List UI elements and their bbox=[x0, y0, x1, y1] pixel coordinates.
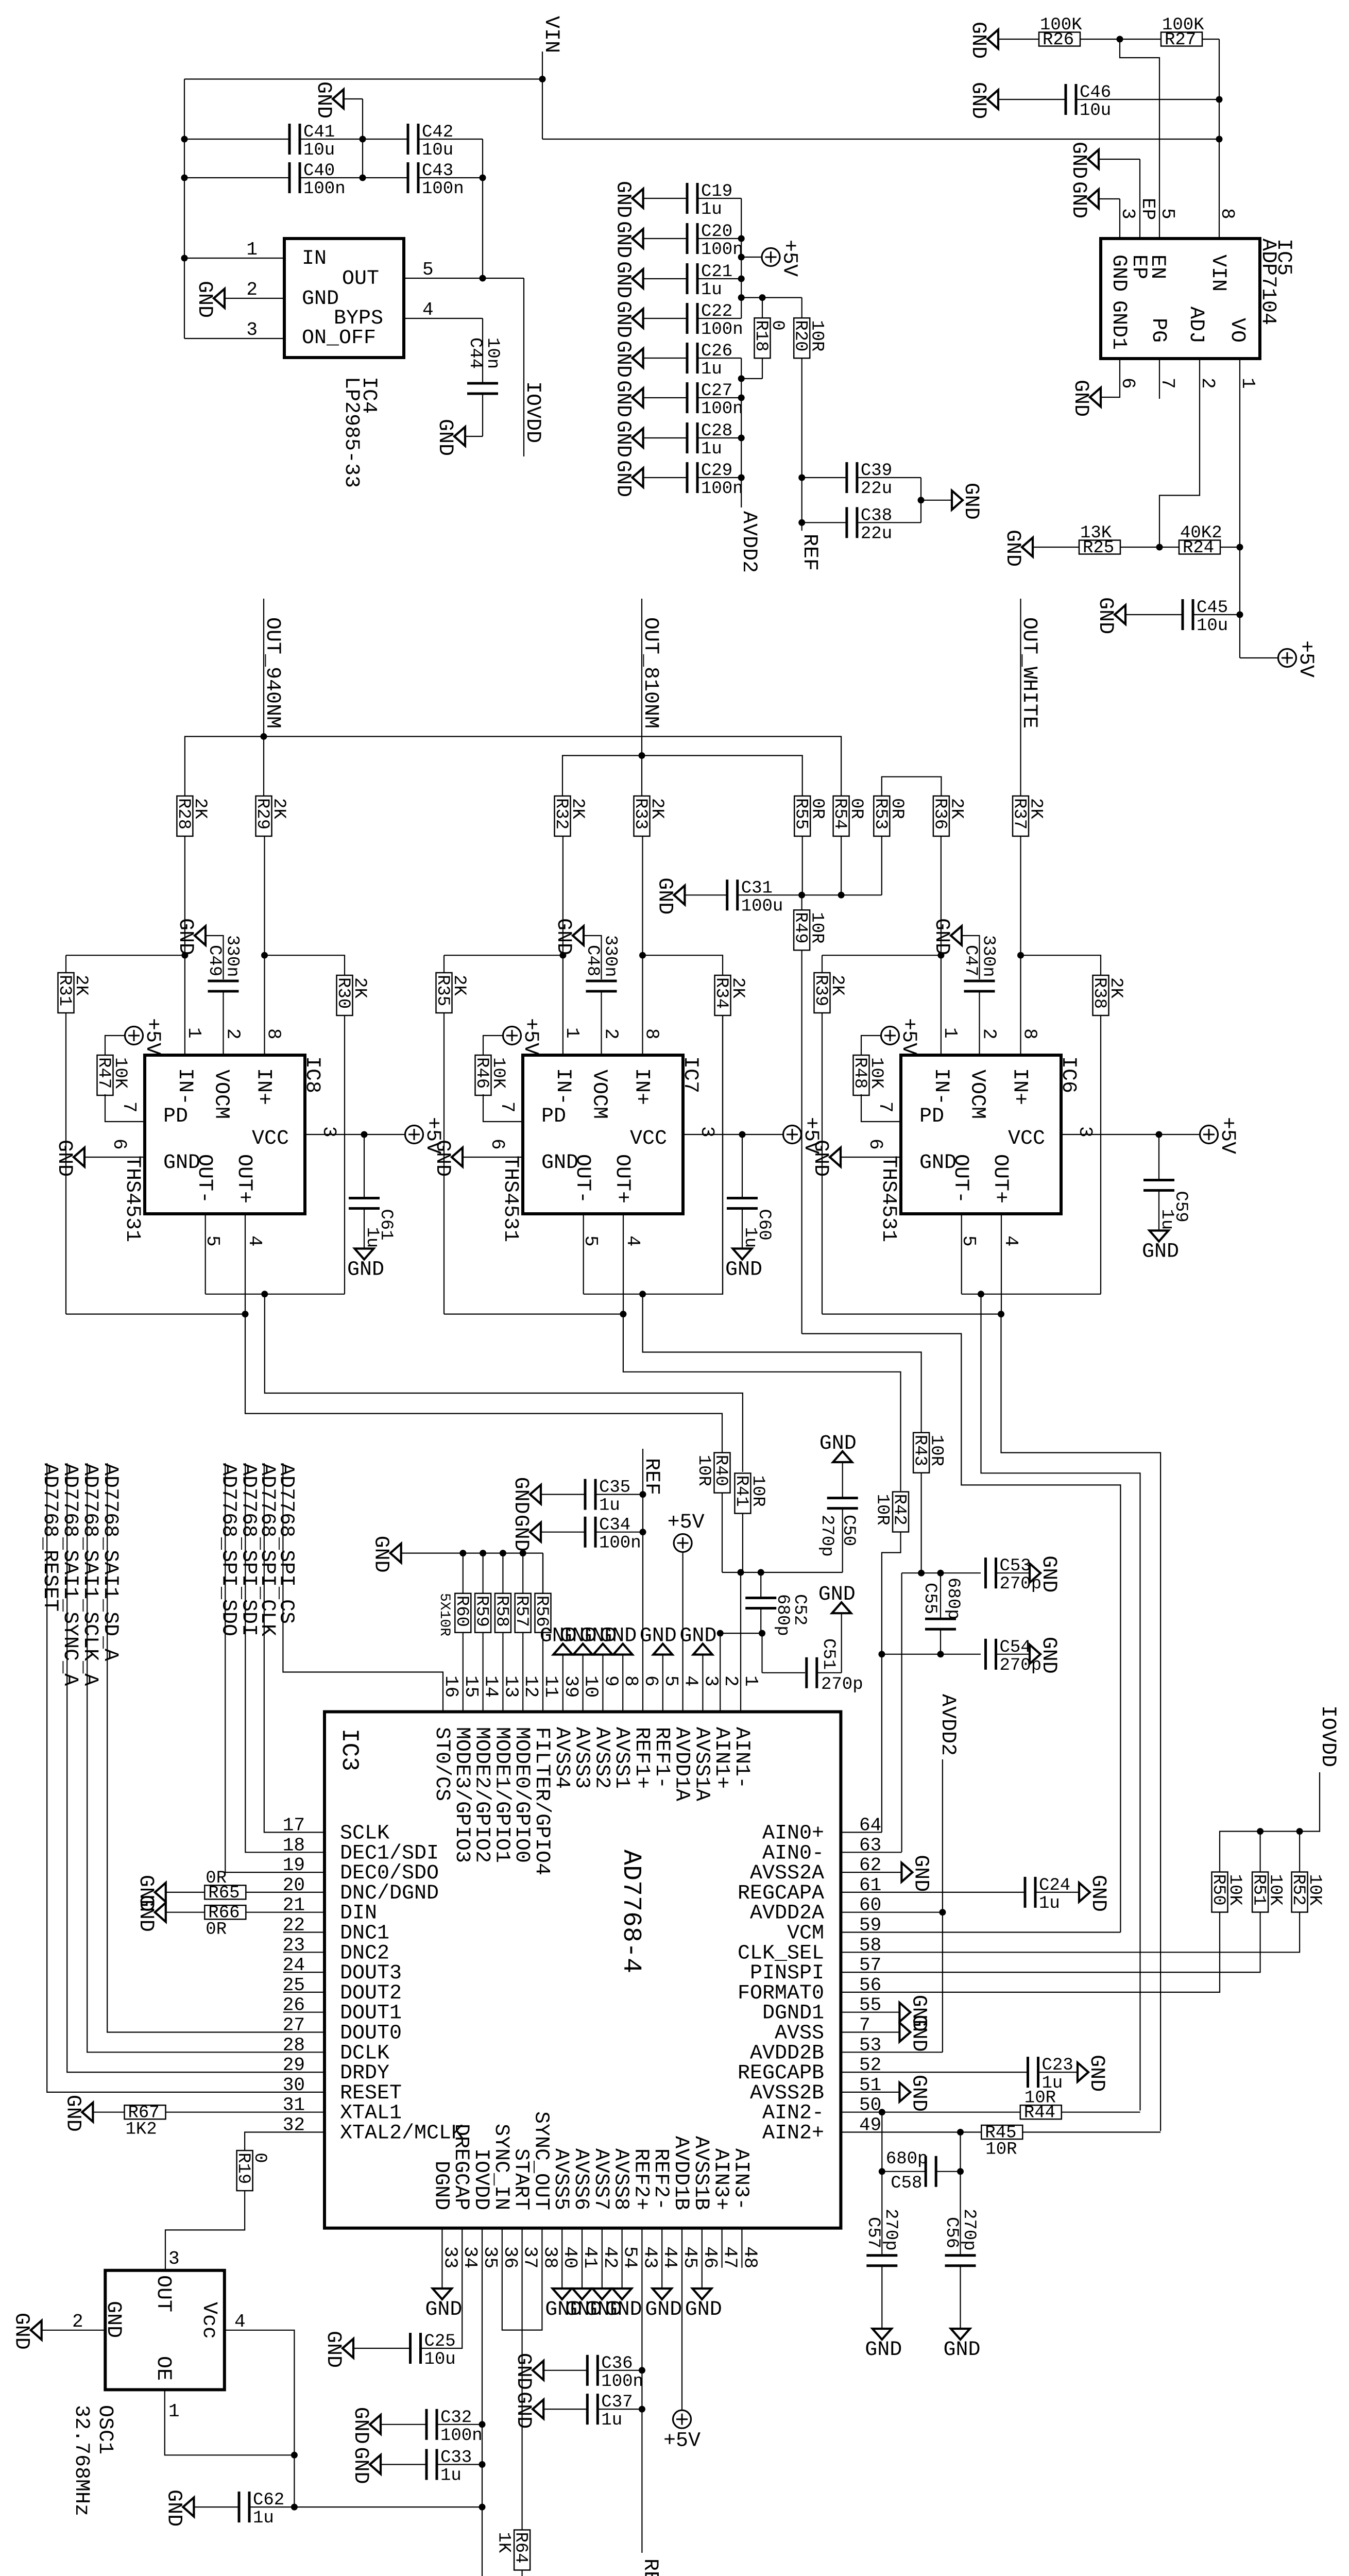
svg-text:+5V: +5V bbox=[519, 1018, 542, 1055]
wire bbox=[699, 198, 742, 199]
wire R54 bottom bbox=[841, 836, 842, 895]
capacitor C60 bbox=[727, 1197, 758, 1210]
wire VIN vertical bbox=[542, 52, 543, 139]
svg-text:GND: GND bbox=[511, 2353, 535, 2390]
svg-text:R60: R60 bbox=[452, 1596, 471, 1627]
wire VIN to IC4 input bbox=[184, 78, 542, 79]
resistor R27 bbox=[1161, 15, 1204, 50]
wire bbox=[1033, 547, 1079, 548]
junction bbox=[738, 1569, 744, 1576]
wire bbox=[921, 500, 952, 501]
svg-text:10u: 10u bbox=[424, 2350, 456, 2369]
junction bbox=[639, 752, 645, 759]
wire pin45 AVDD1B bbox=[681, 2228, 682, 2410]
svg-text:C49: C49 bbox=[204, 945, 224, 976]
wire to VIN pin8 bbox=[1219, 39, 1220, 239]
junction bbox=[738, 276, 745, 282]
svg-text:GND: GND bbox=[1069, 380, 1092, 417]
junction bbox=[479, 2504, 486, 2511]
wire VOCM bbox=[979, 991, 980, 1055]
wire bbox=[543, 2409, 587, 2410]
junction at IC5 VIN line bbox=[1216, 136, 1223, 143]
ground at pin 5 bbox=[640, 1625, 677, 1655]
svg-text:GND: GND bbox=[509, 1515, 532, 1552]
svg-text:2K: 2K bbox=[71, 975, 91, 996]
capacitor C44 bbox=[467, 382, 498, 395]
svg-text:2: 2 bbox=[979, 1028, 1000, 1040]
wire pin6 bbox=[463, 1157, 523, 1158]
svg-text:4: 4 bbox=[234, 2311, 246, 2332]
junction bbox=[879, 2109, 885, 2115]
wire to EN pin5 bbox=[1120, 39, 1159, 239]
svg-text:GND: GND bbox=[511, 2392, 535, 2429]
wire bbox=[1062, 2112, 1140, 2113]
wire pin52 bbox=[841, 2072, 1028, 2073]
capacitor C33 bbox=[425, 2448, 472, 2486]
ground at C48 bbox=[552, 918, 584, 955]
wire bbox=[842, 1510, 843, 1572]
svg-text:8: 8 bbox=[641, 1028, 662, 1040]
ground at C31 bbox=[653, 877, 685, 914]
wire R31 bottom bbox=[65, 1013, 66, 1314]
resistor R58 bbox=[491, 1594, 511, 1633]
wire bbox=[166, 1912, 206, 1913]
wire pin62 bbox=[841, 1872, 901, 1873]
ground at C38/C39 bbox=[952, 483, 982, 520]
resistor R49 bbox=[791, 910, 827, 950]
ground at R25 bbox=[1001, 530, 1033, 567]
svg-text:10K: 10K bbox=[1305, 1874, 1324, 1906]
junction bbox=[918, 1570, 925, 1577]
wire pin4 BYPS bbox=[404, 318, 483, 319]
svg-text:GND: GND bbox=[425, 2298, 462, 2321]
svg-text:GND: GND bbox=[1067, 181, 1090, 218]
wire stub bbox=[283, 1992, 325, 1993]
capacitor C25 bbox=[409, 2332, 456, 2369]
wire bbox=[1021, 955, 1101, 975]
svg-text:680p: 680p bbox=[943, 1578, 963, 1620]
capacitor C41 bbox=[288, 123, 335, 160]
ground at pin 39 bbox=[540, 1625, 577, 1655]
wire bbox=[858, 477, 921, 478]
wire bbox=[643, 278, 687, 279]
svg-text:GND: GND bbox=[605, 2298, 642, 2321]
wire bbox=[962, 936, 980, 979]
svg-text:2: 2 bbox=[72, 2311, 83, 2332]
svg-text:AVSS1B: AVSS1B bbox=[689, 2136, 712, 2210]
svg-text:10R: 10R bbox=[927, 1435, 946, 1466]
resistor R34 bbox=[711, 975, 747, 1015]
ground at AVSS2B bbox=[899, 2075, 930, 2112]
svg-text:GND: GND bbox=[321, 2331, 345, 2368]
resistor R53 bbox=[870, 796, 907, 836]
wire pin4 OUT+ bbox=[623, 1214, 624, 1314]
wire pin7 PD bbox=[861, 1094, 901, 1122]
svg-text:GND: GND bbox=[349, 2407, 372, 2444]
svg-text:10: 10 bbox=[580, 1675, 602, 1698]
junction bbox=[738, 294, 745, 301]
wire pin3 VCC bbox=[305, 1134, 405, 1135]
capacitor C39 bbox=[845, 461, 892, 499]
svg-text:GND: GND bbox=[611, 221, 635, 258]
svg-text:C25: C25 bbox=[424, 2332, 456, 2351]
wire VCM route bbox=[802, 1334, 1121, 1933]
op-amp U IC4 LP2985-33 box bbox=[284, 239, 404, 358]
wire R38 bottom bbox=[1100, 1015, 1101, 1294]
ground at AVSS bbox=[899, 2015, 930, 2052]
svg-text:GND: GND bbox=[611, 380, 635, 417]
power +5V at IC5 output bbox=[1278, 640, 1318, 677]
svg-text:48: 48 bbox=[739, 2246, 760, 2268]
capacitor C42 bbox=[407, 123, 454, 160]
wire AIN2- vertical bbox=[881, 2112, 882, 2255]
power +5V at AVDD1B bbox=[663, 2410, 701, 2453]
wire pin7 bbox=[841, 2031, 899, 2032]
wire bbox=[861, 1036, 881, 1056]
wire bbox=[1240, 657, 1278, 658]
wire bbox=[543, 2370, 587, 2371]
wire pin3 bbox=[184, 338, 284, 339]
resistor R48 bbox=[850, 1055, 886, 1095]
svg-text:GND: GND bbox=[944, 2338, 981, 2362]
svg-text:0R: 0R bbox=[887, 798, 907, 819]
svg-text:10R: 10R bbox=[985, 2140, 1017, 2160]
wire bbox=[184, 139, 289, 140]
svg-text:GND: GND bbox=[1001, 530, 1024, 567]
wire FORMAT0 to R50 bbox=[841, 1912, 1220, 1992]
ground at IC7 pin6 bbox=[431, 1140, 463, 1177]
svg-text:GND: GND bbox=[611, 460, 635, 497]
wire bbox=[742, 1134, 743, 1197]
svg-text:IOVDD: IOVDD bbox=[469, 2148, 492, 2210]
capacitor C40 bbox=[288, 161, 346, 199]
svg-text:+5V: +5V bbox=[778, 240, 801, 277]
resistor R46 bbox=[472, 1055, 508, 1095]
svg-text:1u: 1u bbox=[701, 280, 722, 300]
junction bbox=[998, 1311, 1004, 1317]
wire bbox=[364, 1134, 365, 1197]
wire bbox=[699, 437, 742, 438]
svg-text:8: 8 bbox=[1019, 1028, 1040, 1040]
ground at R67 bbox=[61, 2095, 93, 2132]
svg-text:SYNC_IN: SYNC_IN bbox=[489, 2124, 513, 2210]
svg-text:8: 8 bbox=[620, 1675, 641, 1687]
wire bbox=[643, 198, 687, 199]
svg-text:5: 5 bbox=[1157, 208, 1178, 219]
junction bbox=[261, 1291, 268, 1297]
power +5V at R48 bbox=[881, 1018, 920, 1055]
junction bbox=[479, 2461, 486, 2468]
svg-text:ON_OFF: ON_OFF bbox=[302, 327, 376, 350]
svg-text:4: 4 bbox=[680, 1675, 702, 1687]
svg-text:GND: GND bbox=[433, 419, 456, 456]
svg-text:PD: PD bbox=[541, 1105, 566, 1128]
svg-text:100n: 100n bbox=[440, 2426, 483, 2446]
wire pin2 bbox=[225, 298, 284, 299]
svg-text:GND: GND bbox=[1037, 1555, 1060, 1592]
svg-text:OUT-: OUT- bbox=[949, 1154, 972, 1204]
wire bbox=[1158, 1191, 1159, 1231]
wire pin34 bbox=[421, 2228, 463, 2348]
wire IC6 pin1 line bbox=[941, 836, 942, 1055]
wire bbox=[502, 1553, 503, 1594]
wire R55 bottom bbox=[802, 836, 803, 895]
svg-text:1u: 1u bbox=[599, 1496, 620, 1516]
svg-text:3: 3 bbox=[1074, 1126, 1096, 1138]
svg-text:42: 42 bbox=[600, 2246, 621, 2268]
svg-text:GND: GND bbox=[611, 301, 635, 338]
svg-text:GND: GND bbox=[61, 2095, 84, 2132]
ground at pin 8 bbox=[600, 1625, 637, 1655]
regulator IC5 ADP7104 box bbox=[1101, 239, 1260, 359]
svg-text:11: 11 bbox=[540, 1675, 561, 1698]
wire bbox=[1037, 1892, 1080, 1893]
wire AIN0- node bbox=[902, 1572, 981, 1573]
svg-text:15: 15 bbox=[460, 1675, 482, 1698]
wire bbox=[66, 955, 185, 956]
junction bbox=[360, 136, 366, 143]
wire bbox=[643, 955, 723, 975]
ground at pin 10 bbox=[560, 1625, 597, 1655]
wire stub bbox=[582, 1655, 583, 1712]
ground at EP bbox=[1067, 142, 1099, 179]
svg-text:1u: 1u bbox=[1039, 1894, 1060, 1913]
ground at IC6 pin6 bbox=[809, 1140, 841, 1177]
svg-text:OUT: OUT bbox=[151, 2275, 175, 2312]
svg-text:GND: GND bbox=[1067, 142, 1090, 179]
svg-text:C55: C55 bbox=[920, 1583, 940, 1614]
svg-text:2: 2 bbox=[720, 1675, 741, 1687]
svg-text:GND: GND bbox=[611, 261, 635, 298]
ground at C46 bbox=[966, 82, 998, 119]
ground at C26 bbox=[611, 341, 643, 378]
ground at C47 bbox=[930, 918, 962, 955]
svg-text:0: 0 bbox=[250, 2153, 269, 2163]
wire bbox=[998, 39, 1120, 40]
svg-text:GND: GND bbox=[966, 82, 989, 119]
svg-text:AIN2+: AIN2+ bbox=[762, 2122, 824, 2145]
wire pin4 AVDD1A bbox=[682, 1552, 683, 1712]
capacitor C61 bbox=[349, 1197, 380, 1210]
svg-text:5X10R: 5X10R bbox=[436, 1593, 452, 1636]
ground below C56 bbox=[944, 2329, 981, 2362]
wire bbox=[1202, 39, 1219, 40]
svg-text:GND: GND bbox=[162, 2489, 185, 2527]
ground at DGND1 bbox=[899, 1995, 930, 2032]
wire bbox=[762, 1672, 806, 1673]
svg-text:16: 16 bbox=[440, 1675, 462, 1698]
svg-text:+5V: +5V bbox=[1294, 640, 1317, 677]
svg-text:DGND: DGND bbox=[429, 2161, 452, 2210]
capacitor C22 bbox=[686, 302, 743, 340]
wire bbox=[1022, 2131, 1160, 2132]
junction bbox=[978, 1291, 984, 1297]
wire bbox=[802, 522, 847, 523]
resistor R31 bbox=[55, 973, 91, 1013]
capacitor C49 bbox=[208, 980, 239, 993]
wire VIN to IC5 pin8 bbox=[542, 139, 1219, 140]
wire pin46 bbox=[702, 2228, 703, 2288]
junction bbox=[480, 275, 486, 282]
wire R40 bottom bbox=[722, 1493, 723, 1572]
svg-text:1: 1 bbox=[561, 1027, 583, 1039]
wire IC6 pin8 line bbox=[1020, 836, 1021, 1055]
svg-text:GND: GND bbox=[53, 1140, 76, 1177]
capacitor C52 bbox=[745, 1597, 776, 1609]
capacitor C38 bbox=[845, 506, 892, 544]
ground at C29 bbox=[611, 460, 643, 497]
svg-text:43: 43 bbox=[639, 2246, 660, 2268]
svg-text:GND: GND bbox=[679, 1625, 716, 1648]
ground above C41 bbox=[312, 81, 344, 118]
svg-text:40: 40 bbox=[559, 2246, 580, 2268]
resistor R37 bbox=[1010, 796, 1046, 836]
svg-text:330n: 330n bbox=[223, 935, 242, 977]
junction bbox=[480, 175, 486, 181]
capacitor C53 bbox=[984, 1556, 1041, 1594]
wire bbox=[822, 955, 941, 956]
wire bbox=[184, 177, 289, 178]
ground at C35 bbox=[509, 1477, 541, 1514]
svg-text:GND: GND bbox=[640, 1625, 677, 1648]
svg-text:270p: 270p bbox=[821, 1675, 863, 1694]
ground at DGND bbox=[425, 2289, 462, 2321]
svg-text:GND: GND bbox=[369, 1536, 392, 1573]
wire bbox=[541, 1494, 585, 1495]
wire bbox=[263, 737, 264, 796]
svg-text:10R: 10R bbox=[807, 912, 827, 943]
svg-text:IN+: IN+ bbox=[1008, 1068, 1031, 1105]
svg-text:OE: OE bbox=[151, 2356, 175, 2381]
capacitor C57 bbox=[866, 2254, 897, 2267]
wire OUT_940NM row bbox=[185, 737, 841, 796]
svg-text:5: 5 bbox=[660, 1675, 681, 1687]
wire bbox=[265, 955, 345, 975]
wire IC7 OUT- to R43 bbox=[643, 1294, 921, 1433]
wire bbox=[194, 2506, 239, 2507]
svg-text:OUT-: OUT- bbox=[193, 1154, 216, 1204]
wire IC8 OUT- row bbox=[206, 1294, 345, 1295]
svg-text:46: 46 bbox=[699, 2246, 721, 2268]
wire bbox=[741, 257, 762, 258]
svg-text:1: 1 bbox=[1237, 378, 1258, 389]
wire bbox=[841, 1614, 842, 1673]
resistor R35 bbox=[433, 973, 469, 1013]
wire bbox=[699, 397, 742, 398]
wire bbox=[420, 139, 483, 140]
wire R42 jog to AIN0+ bbox=[882, 1532, 901, 1833]
resistor R65 bbox=[204, 1869, 246, 1903]
svg-text:3: 3 bbox=[1117, 208, 1138, 219]
wire bbox=[842, 1462, 843, 1498]
wire pin53 bbox=[841, 2052, 943, 2053]
wire AD7768_SAI1_SYNC_A bbox=[67, 1463, 325, 2072]
svg-text:1u: 1u bbox=[253, 2509, 274, 2528]
junction bbox=[758, 1569, 764, 1576]
wire R41 bottom bbox=[742, 1514, 743, 1573]
wire bbox=[105, 1036, 125, 1056]
svg-text:1u: 1u bbox=[601, 2411, 622, 2430]
svg-text:2K: 2K bbox=[269, 798, 288, 819]
ground at pin 41 bbox=[565, 2289, 602, 2321]
junction bbox=[738, 254, 745, 261]
svg-text:GND: GND bbox=[431, 1140, 454, 1177]
wire R53 to R36 bbox=[882, 777, 942, 796]
wire pin40 bbox=[561, 2228, 562, 2288]
wire bbox=[699, 238, 742, 239]
resistor R43 bbox=[910, 1433, 946, 1473]
power +5V at R47 bbox=[125, 1018, 164, 1055]
wire bbox=[960, 2266, 961, 2329]
ground below C61 bbox=[347, 1249, 384, 1282]
wire OUT_940NM bbox=[263, 599, 264, 737]
svg-text:IC7: IC7 bbox=[678, 1056, 702, 1093]
resistor R57 bbox=[511, 1594, 531, 1633]
ground at C34 bbox=[509, 1515, 541, 1552]
wire bbox=[246, 1912, 325, 1913]
wire REF drop bbox=[801, 358, 802, 531]
wire IC6 OUT- to R44 bbox=[981, 1294, 1140, 2111]
svg-text:1: 1 bbox=[246, 239, 258, 260]
svg-text:680p: 680p bbox=[886, 2149, 928, 2169]
junction bbox=[1156, 1131, 1163, 1138]
wire AD7768_SPI_SDI bbox=[245, 1463, 325, 1852]
capacitor C21 bbox=[686, 262, 733, 300]
wire pin35 IOVDD bbox=[482, 2228, 483, 2576]
svg-text:1u: 1u bbox=[1157, 1209, 1176, 1230]
svg-text:3: 3 bbox=[700, 1675, 721, 1687]
svg-text:GND: GND bbox=[1086, 1875, 1109, 1912]
wire GND riser bbox=[362, 99, 363, 178]
svg-text:4: 4 bbox=[422, 299, 434, 320]
resistor R54 bbox=[830, 796, 866, 836]
wire bbox=[699, 278, 742, 279]
wire bbox=[597, 1532, 643, 1533]
ground at IC4 pin2 bbox=[193, 281, 225, 318]
wire IOVDD rail bbox=[1220, 1772, 1320, 1873]
svg-text:AVSS6: AVSS6 bbox=[569, 2148, 592, 2210]
ground at IC5 pin6 bbox=[1069, 380, 1101, 417]
wire bbox=[542, 1553, 543, 1594]
svg-text:GND: GND bbox=[725, 1259, 762, 1282]
svg-text:1: 1 bbox=[940, 1027, 961, 1039]
junction bbox=[738, 375, 745, 382]
svg-text:54: 54 bbox=[620, 2246, 641, 2268]
junction bbox=[937, 952, 944, 959]
wire bbox=[643, 437, 687, 438]
power +5V at IC7 VCC bbox=[783, 1117, 823, 1154]
resistor R67 bbox=[125, 2104, 166, 2140]
junction bbox=[1257, 1828, 1263, 1835]
wire bbox=[643, 318, 687, 319]
capacitor C58 bbox=[925, 2156, 937, 2187]
svg-text:47: 47 bbox=[720, 2246, 741, 2268]
op-amp IC6 THS4531 box bbox=[901, 1055, 1061, 1214]
ground at C62 bbox=[162, 2489, 194, 2527]
svg-text:22u: 22u bbox=[861, 524, 892, 544]
junction bbox=[640, 1529, 646, 1535]
wire stub bbox=[283, 1952, 325, 1953]
wire pin6 bbox=[841, 1157, 901, 1158]
svg-text:6: 6 bbox=[1117, 378, 1138, 389]
wire IC8 OUT- to R41 bbox=[265, 1294, 743, 1472]
resistor R20 bbox=[791, 318, 827, 358]
svg-text:1u: 1u bbox=[701, 439, 722, 459]
wire bbox=[802, 477, 847, 478]
wire IC7 pin1 line bbox=[562, 836, 563, 1055]
svg-text:2K: 2K bbox=[728, 977, 747, 998]
wire pin37 START bbox=[521, 2228, 522, 2530]
